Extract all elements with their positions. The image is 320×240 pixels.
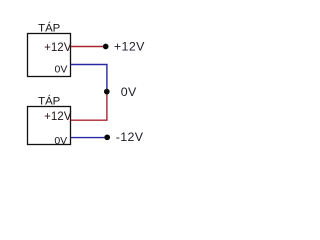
node 0V junction dot [104, 89, 110, 95]
svg-text:0V: 0V [55, 63, 68, 75]
svg-text:+12V: +12V [44, 41, 72, 54]
wire U1 0V to node 0V (blue, L-shaped) [71, 65, 107, 92]
svg-text:+12V: +12V [44, 110, 72, 123]
wire U2 0V to node -12V (blue) [71, 137, 107, 139]
svg-text:0V: 0V [121, 85, 137, 99]
wire U2 +12V to node 0V (red, L-shaped) [71, 92, 107, 120]
svg-text:TÁP: TÁP [38, 22, 60, 35]
wire U1 +12V to node +12V (red) [71, 46, 106, 48]
svg-text:-12V: -12V [116, 130, 144, 144]
svg-text:0V: 0V [54, 135, 67, 147]
power supply box U1 [28, 34, 71, 77]
svg-text:TÁP: TÁP [38, 94, 60, 107]
node +12V junction dot [103, 44, 109, 50]
svg-text:+12V: +12V [114, 39, 145, 53]
power supply box U2 [28, 107, 71, 145]
node -12V junction dot [104, 134, 110, 140]
